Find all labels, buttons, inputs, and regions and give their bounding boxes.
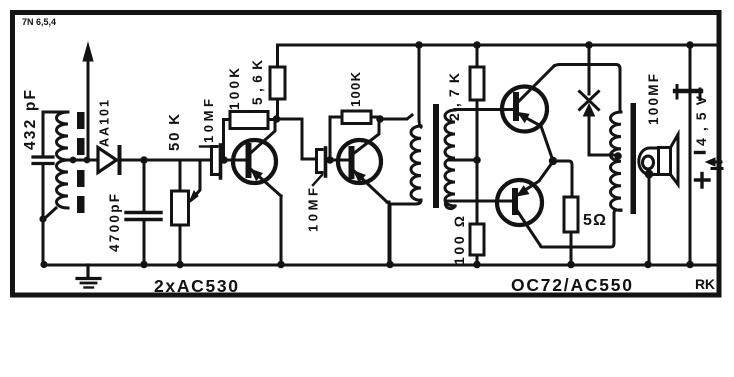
resistor R2 100K (feedback): [230, 112, 268, 129]
node rail R1: [176, 261, 184, 269]
wire base Q2: [330, 159, 348, 162]
wire secondary bottom to base Q4: [445, 201, 455, 209]
wire R2 right lead: [268, 118, 276, 121]
wire secondary center tap: [449, 159, 477, 162]
coil L1 (antenna coil): [57, 112, 69, 208]
svg-text:5Ω: 5Ω: [583, 212, 606, 229]
svg-text:100 Ω: 100 Ω: [451, 216, 467, 265]
svg-text:100K: 100K: [348, 71, 363, 107]
wire R2 left lead: [224, 120, 231, 158]
node base Q1: [220, 156, 228, 164]
svg-text:RK: RK: [695, 276, 715, 292]
node common emitters: [549, 157, 557, 165]
svg-text:100K: 100K: [227, 68, 242, 110]
wire Q2 collector to transformer: [380, 115, 412, 119]
node T1 bottom rail: [386, 261, 394, 269]
wire diode to node A: [121, 159, 211, 162]
wire T1 primary bottom: [390, 200, 421, 265]
wire Q4 collector to T2 bottom: [540, 210, 621, 247]
wire secondary top to base Q3: [455, 108, 513, 111]
arrow tick from border: [706, 158, 722, 169]
wire X branch from rail: [588, 45, 591, 94]
diode D1 AA101: [98, 147, 120, 173]
node collector Q2: [376, 115, 384, 123]
wiper arm R1: [189, 160, 200, 203]
capacitor C1 432pF plates: [33, 157, 53, 164]
wire stage link Q1 collector to C4: [277, 119, 317, 159]
arrow up to X: [584, 104, 595, 116]
wire R1 bottom lead: [179, 225, 182, 265]
capacitor C3 10MF (coupling): [212, 145, 221, 178]
wire R3 bottom lead: [276, 99, 279, 119]
node rail Q1 emitter: [277, 261, 285, 269]
node rail C2: [140, 261, 148, 269]
wire R5 top lead: [476, 45, 479, 67]
ferrite core dashes: [77, 112, 85, 213]
wire C2 bottom lead: [143, 221, 146, 265]
svg-text:2,7K: 2,7K: [446, 73, 462, 121]
wire Q3 collector to T2 top: [554, 65, 620, 113]
node center tap: [473, 156, 481, 164]
node collector Q1: [273, 115, 281, 123]
resistor R6 100 ohm: [470, 224, 484, 255]
node base Q2: [326, 156, 334, 164]
wire R6 bottom lead: [476, 255, 479, 265]
wire left branch down: [42, 166, 45, 265]
node antenna junction: [84, 157, 91, 164]
transformer T2 primary (output): [611, 112, 622, 210]
ground: [77, 265, 100, 288]
svg-text:4,5V: 4,5V: [693, 95, 709, 146]
node R5 rail: [473, 41, 481, 49]
plus mark: [696, 174, 710, 188]
node A: [140, 156, 148, 164]
wire base Q1: [224, 159, 246, 162]
svg-text:OC72/AC550: OC72/AC550: [511, 275, 632, 295]
wire R4 right lead: [371, 116, 380, 119]
transformer T1 primary: [411, 126, 421, 200]
X mark: [580, 92, 599, 110]
wire bias line R5 to R6: [476, 100, 479, 224]
node rail T1 drop: [415, 41, 423, 49]
border frame: [13, 13, 720, 296]
node rail X drop: [585, 41, 593, 49]
transformer T1 secondary: [445, 110, 455, 206]
svg-text:2xAC530: 2xAC530: [154, 276, 238, 296]
wire X branch to T2 center tap: [589, 113, 617, 155]
wire R7 bottom lead: [570, 232, 573, 265]
resistor R4 100K (stage 2 feedback): [342, 111, 371, 124]
speaker LS: [639, 135, 678, 185]
core T2: [631, 103, 637, 214]
svg-text:10MF: 10MF: [201, 99, 216, 143]
top rail: [278, 44, 719, 47]
svg-text:5,6K: 5,6K: [250, 60, 265, 105]
wire coil top bracket: [43, 112, 68, 155]
bottom rail: [43, 264, 718, 267]
node rail R6: [473, 261, 481, 269]
wire tap to diode: [68, 159, 97, 162]
wire R3 top lead: [276, 45, 279, 67]
resistor R3 5,6K: [270, 67, 285, 99]
svg-text:10MF: 10MF: [306, 188, 321, 232]
node left rail corner: [40, 261, 47, 268]
battery B1 wire: [689, 45, 692, 265]
antenna: [83, 43, 93, 160]
resistor R5 2,7K: [470, 67, 484, 100]
node battery bottom: [686, 261, 694, 269]
resistor R7 5 ohm: [564, 197, 578, 232]
wire speaker to rail: [648, 176, 651, 265]
wire emitter Q2 to rail: [387, 202, 389, 265]
svg-text:AA101: AA101: [98, 100, 112, 147]
node rail R7: [567, 261, 575, 269]
transistor Q1: [233, 121, 281, 196]
capacitor C2 4700pF plates: [126, 213, 161, 220]
node T2 center tap: [614, 152, 622, 160]
wire C2 top lead: [143, 160, 146, 211]
capacitor C4 10MF (stage 2 coupling): [317, 148, 326, 176]
node speaker rail: [644, 261, 652, 269]
transistor Q4 (lower push-pull): [497, 163, 552, 245]
transistor Q3 (upper push-pull): [502, 66, 554, 158]
wire R4 left lead: [330, 117, 342, 157]
core T1: [433, 104, 439, 208]
svg-text:7N 6,5,4: 7N 6,5,4: [22, 17, 56, 27]
wire R1 top lead: [179, 160, 182, 191]
capacitor C5 100MF symbol: [675, 86, 701, 100]
transistor Q2: [338, 122, 387, 202]
node battery top: [686, 41, 694, 49]
node speaker lead: [645, 170, 654, 179]
wire emitter Q1 down: [280, 196, 283, 265]
wire rail drop to transformer T1: [419, 45, 421, 127]
node tap: [70, 157, 77, 164]
potentiometer R1 50K: [172, 191, 189, 225]
minus mark: [696, 151, 705, 154]
wire emitters to R7: [553, 161, 572, 197]
node coil bottom joint: [44, 208, 56, 219]
